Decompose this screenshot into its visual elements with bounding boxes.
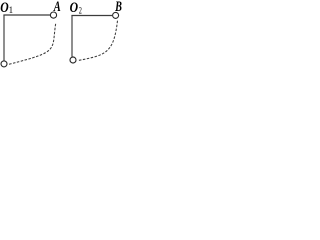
label O1 [0,0,13,15]
svg-text:2: 2 [79,5,82,15]
wire: left dashed swing arc from bottom ball up to ball A [9,23,56,64]
label O2 [70,0,82,16]
svg-text:1: 1 [9,5,14,15]
svg-text:B: B [114,0,122,14]
wire: right figure vertical string hanging from O2 [71,16,73,57]
wire: left figure horizontal rod from O1 to ball A [3,14,50,16]
background [0,0,122,72]
svg-text:A: A [53,0,61,14]
node: ball B (open circle) [113,12,119,18]
node: right bottom ball (open circle) [70,57,76,63]
node: ball A (open circle) [50,12,56,18]
wire: right figure horizontal rod from O2 to ball B [71,15,112,17]
wire: left figure vertical string hanging from O1 [3,15,5,61]
wire: right dashed swing arc from bottom ball up to ball B [79,20,118,61]
svg-text:O: O [70,0,79,15]
svg-text:O: O [0,0,9,15]
node: left bottom ball (open circle) [1,61,7,67]
